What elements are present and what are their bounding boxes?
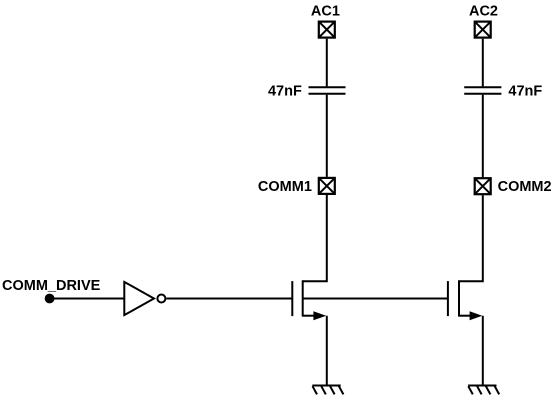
wire AC2 pad to C2: [482, 39, 484, 87]
inverter U1: [124, 282, 165, 315]
svg-text:AC2: AC2: [469, 4, 498, 20]
svg-text:47nF: 47nF: [268, 83, 302, 99]
transistor Q1: [292, 280, 326, 320]
wire COMM_DRIVE to inverter input: [50, 298, 125, 300]
pad AC1: [319, 22, 335, 38]
wire AC1 pad to C1: [326, 39, 328, 87]
wire C2 to COMM2: [482, 95, 484, 178]
wire Q1 source to ground: [326, 316, 328, 386]
wire C1 to COMM1: [326, 95, 328, 177]
ground (Q1 source): [312, 386, 343, 395]
svg-text:COMM1: COMM1: [258, 179, 312, 195]
pad COMM1: [319, 178, 335, 194]
capacitor C1: [309, 87, 346, 94]
svg-text:AC1: AC1: [311, 4, 340, 20]
transistor Q2: [448, 280, 482, 320]
wire COMM1 to Q1 drain: [303, 195, 327, 281]
svg-text:47nF: 47nF: [508, 83, 542, 99]
wire COMM2 to Q2 drain: [459, 195, 483, 281]
wire Q1 to Q2 gate: [303, 298, 448, 300]
ground (Q2 source): [468, 386, 499, 395]
svg-text:COMM_DRIVE: COMM_DRIVE: [2, 278, 101, 294]
wire Q2 source to ground: [482, 316, 484, 386]
pad AC2: [475, 22, 491, 38]
pad COMM2: [475, 178, 491, 194]
node COMM_DRIVE terminal dot: [45, 294, 55, 304]
wire inverter output to Q1 gate: [166, 298, 292, 300]
svg-text:COMM2: COMM2: [498, 179, 552, 195]
capacitor C2: [464, 87, 501, 94]
